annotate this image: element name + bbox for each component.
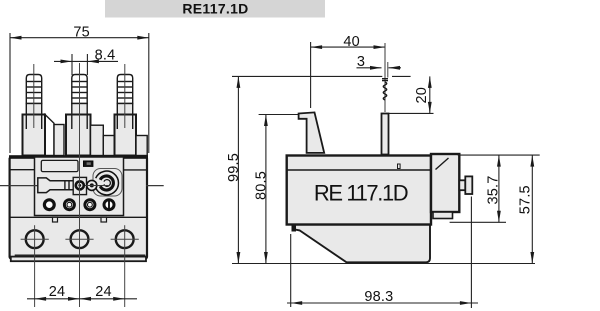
svg-text:99.5: 99.5	[226, 153, 242, 182]
dim 35.7 bottom ref line	[450, 221, 506, 223]
dim 8.4 line	[54, 60, 118, 62]
svg-text:75: 75	[73, 24, 90, 40]
dim 20 line	[429, 76, 431, 113]
pin spring squiggle	[383, 82, 386, 100]
inner panel	[35, 157, 124, 216]
lever pad square	[73, 177, 86, 194]
dim 75 arrow left	[10, 36, 22, 40]
body mid separation line	[10, 216, 148, 218]
side right block	[431, 154, 459, 212]
svg-text:24: 24	[49, 284, 66, 300]
stud 2 threaded cap	[72, 75, 87, 104]
svg-text:35.7: 35.7	[486, 175, 502, 204]
svg-text:80.5: 80.5	[253, 171, 269, 200]
block step low left	[54, 125, 64, 156]
svg-text:RE117.1D: RE117.1D	[182, 1, 248, 17]
reference line (hook top level) left	[259, 114, 299, 116]
stud 1 shaft	[26, 104, 41, 116]
terminal block 3	[115, 115, 137, 156]
dim 75 line	[10, 37, 149, 39]
dim 8.4 arrow right	[87, 60, 99, 64]
cable hole 3	[116, 230, 134, 248]
wedge clip mark	[292, 226, 297, 232]
mount tab left	[53, 217, 58, 222]
svg-text:57.5: 57.5	[518, 185, 534, 214]
dim 40 line	[311, 46, 385, 48]
stud shaft lines inside block 1	[25, 115, 27, 130]
mounting hook	[299, 112, 325, 152]
dim 98.3 left ext line	[290, 234, 292, 307]
stud 2 shaft	[72, 104, 87, 116]
centerline middle (full)	[79, 63, 81, 307]
side knob stem	[459, 180, 465, 190]
centerline overlay through dial	[85, 185, 110, 187]
knob 2	[87, 180, 97, 190]
block 1 chamfer	[45, 115, 54, 156]
right block chamfer line	[436, 158, 449, 170]
body front view	[10, 157, 147, 259]
cable hole 1 crosshair	[21, 238, 49, 240]
trip pin	[382, 114, 389, 155]
knob 1 (stop)	[76, 181, 84, 189]
dim 75 arrow right	[137, 36, 149, 40]
body top step line left	[10, 169, 35, 171]
centerline stud 1 / hole 1	[33, 64, 35, 128]
dim 8.4 arrow left	[61, 60, 73, 64]
terminal block 2	[66, 115, 91, 156]
dim 98.3 right ext line (from knob)	[470, 197, 472, 309]
dial outer arc	[96, 171, 119, 195]
svg-text:40: 40	[343, 34, 360, 50]
screw circle 3	[85, 200, 95, 210]
dim 24-24 line	[27, 298, 137, 300]
screw circle 2	[64, 200, 74, 210]
lever neck tick 2	[68, 181, 70, 190]
svg-text:8.4: 8.4	[95, 47, 116, 63]
bottom wedge	[293, 225, 431, 262]
body bottom plate	[11, 257, 146, 262]
screw circle 4	[104, 200, 114, 210]
cable hole 2	[71, 230, 89, 248]
body top step line right	[124, 169, 148, 171]
dim 8.4 extension line right	[86, 54, 88, 75]
pin centerline	[384, 43, 386, 112]
body top base strip	[9, 155, 148, 159]
stud 3 threaded cap	[117, 75, 132, 104]
cable hole 1	[26, 230, 44, 248]
cable hole 3 crosshair	[111, 238, 139, 240]
dim 75 extension line left	[9, 33, 11, 153]
dim 24 arrows at middle ext	[68, 297, 80, 301]
dim 75 extension line right	[148, 33, 150, 153]
dial center	[104, 180, 110, 187]
dial plate	[93, 169, 122, 197]
dim 57.5 line	[531, 155, 533, 263]
side body top inner line	[287, 169, 431, 171]
top reference line (lever tip level)	[232, 75, 382, 77]
centerline stub right of body	[146, 185, 164, 187]
stud shaft lines inside block 3	[116, 115, 118, 130]
stud 1 threaded cap	[26, 75, 41, 104]
dim 99.5 line	[237, 76, 239, 263]
dim 3 right extension line	[387, 62, 389, 78]
reset lever	[38, 178, 74, 193]
screw circle 1	[44, 200, 54, 210]
svg-text:3: 3	[357, 54, 365, 70]
lever neck tick 1	[64, 181, 66, 190]
test button (dark)	[83, 161, 93, 167]
dim 24 arrow at left ext	[35, 297, 47, 301]
block step right of middle	[91, 125, 104, 155]
side body vent mark	[398, 164, 401, 169]
dim 40 ext line left	[310, 42, 312, 108]
side body main	[287, 156, 431, 225]
bottom baseline	[232, 263, 535, 265]
right block foot	[433, 212, 453, 219]
mount tab right	[101, 217, 107, 222]
block step lower	[103, 136, 114, 156]
centerline stud 3 / hole 3	[124, 64, 126, 128]
reference line (pin top level) right	[389, 112, 434, 114]
svg-text:RE 117.1D: RE 117.1D	[314, 180, 408, 205]
cable hole 2 crosshair	[65, 238, 93, 240]
horizontal centerline through lever row	[0, 185, 122, 187]
svg-text:20: 20	[414, 87, 430, 104]
side knob cap	[465, 176, 472, 194]
header title bar	[105, 0, 325, 18]
dim 8.4 extension line left	[71, 54, 73, 75]
dim 24 arrow at right ext	[113, 297, 125, 301]
dim 80.5 line	[265, 115, 267, 264]
dim 3 line left part	[357, 67, 382, 69]
dim 35.7 top ref line	[458, 154, 540, 156]
pin break ticks	[382, 78, 388, 80]
svg-text:98.3: 98.3	[364, 289, 393, 305]
dim 98.3 line	[287, 302, 478, 304]
dim 3 line right part	[389, 67, 402, 69]
body bottom inner line	[15, 254, 146, 256]
dim 35.7 line	[498, 155, 500, 222]
terminal block 1	[23, 115, 46, 156]
block filler right	[136, 136, 147, 156]
panel label window	[41, 160, 78, 171]
svg-text:24: 24	[95, 284, 112, 300]
dial inner C ring	[100, 176, 113, 190]
stud shaft lines inside block 2	[71, 115, 73, 130]
stud 3 shaft	[117, 104, 132, 116]
